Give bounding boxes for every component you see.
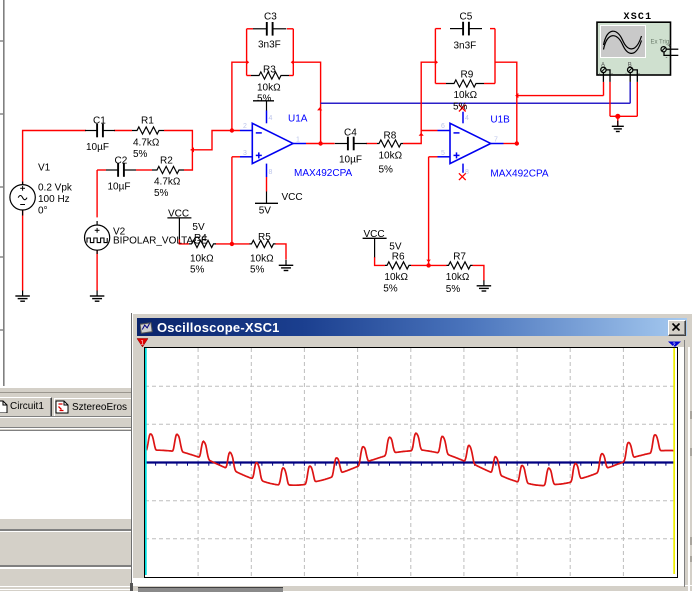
svg-text:C5: C5: [460, 12, 473, 23]
ground R7: [483, 280, 485, 286]
title text: [157, 320, 280, 335]
svg-text:8: 8: [269, 169, 273, 176]
resistor R3: [251, 72, 289, 79]
node arrow feedback right A: [291, 60, 294, 65]
wire VCC2 to R6: [375, 257, 385, 265]
resistor R5: [250, 240, 276, 247]
svg-text:R5: R5: [258, 232, 271, 243]
svg-text:5%: 5%: [379, 165, 394, 176]
svg-text:3: 3: [243, 150, 247, 157]
wire R5 to ground: [276, 244, 287, 260]
capacitor C5: [450, 28, 463, 30]
svg-text:5%: 5%: [190, 265, 205, 276]
plot grid and waveform: [145, 348, 675, 576]
svg-text:R2: R2: [160, 156, 173, 167]
svg-text:5%: 5%: [133, 149, 148, 160]
svg-text:C2: C2: [115, 156, 128, 167]
svg-text:0.2 Vpk: 0.2 Vpk: [38, 183, 73, 194]
close button: [668, 320, 686, 336]
svg-text:2: 2: [673, 343, 676, 349]
svg-text:+: +: [624, 73, 628, 79]
wire terminal A down: [602, 73, 604, 82]
BIPOLAR_VOLTAGE source V2: [85, 225, 110, 250]
node junction arrow R1/R2: [191, 147, 194, 152]
wire R7 to ground: [473, 265, 484, 280]
svg-text:5V: 5V: [259, 206, 272, 217]
spreadsheet white panel: [0, 430, 131, 519]
node arrow blue tap: [317, 107, 322, 110]
svg-text:10kΩ: 10kΩ: [379, 151, 403, 162]
wire blue to scope B: [321, 102, 631, 104]
svg-text:R9: R9: [461, 70, 474, 81]
svg-text:4.7kΩ: 4.7kΩ: [154, 177, 181, 188]
svg-text:10kΩ: 10kΩ: [250, 254, 274, 265]
svg-text:3n3F: 3n3F: [258, 40, 281, 51]
waveform channel A: [147, 433, 675, 485]
resistor R4: [189, 240, 216, 247]
svg-text:10kΩ: 10kΩ: [257, 83, 281, 94]
svg-text:100 Hz: 100 Hz: [38, 194, 70, 205]
svg-text:MAX492CPA: MAX492CPA: [490, 169, 549, 180]
wire feedback box right: [292, 29, 294, 76]
wire Ex Trig +: [666, 48, 678, 50]
resistor R6: [385, 262, 411, 269]
svg-text:10kΩ: 10kΩ: [384, 272, 408, 283]
wire scope B+ drop: [629, 82, 631, 103]
wire terminal B-: [632, 70, 637, 82]
ground scope: [617, 121, 619, 127]
svg-text:4: 4: [269, 115, 273, 122]
wire U1B in+: [429, 156, 438, 158]
capacitor C1: [85, 130, 97, 132]
svg-text:5V: 5V: [389, 242, 402, 253]
title bar icon: [140, 321, 153, 334]
wire to scope A+: [517, 95, 604, 97]
power VCC U1A: [255, 202, 278, 204]
tab strip bottom border: [0, 416, 131, 417]
plot area: [144, 347, 678, 578]
svg-text:-: -: [638, 72, 640, 78]
wire C3 corners: [247, 28, 253, 30]
svg-text:5%: 5%: [453, 102, 468, 113]
svg-text:R4: R4: [194, 233, 207, 244]
svg-text:C1: C1: [93, 116, 106, 127]
wire V1 to ground: [22, 210, 24, 290]
wire C5 corners: [435, 28, 441, 30]
svg-text:V1: V1: [38, 163, 51, 174]
svg-text:10µF: 10µF: [108, 182, 131, 193]
svg-text:C3: C3: [264, 12, 277, 23]
wire Ex Trig -: [664, 52, 678, 56]
svg-text:R7: R7: [453, 252, 466, 263]
svg-text:C4: C4: [344, 128, 357, 139]
node arrow scope tap B: [515, 93, 518, 98]
wire feedback box left: [246, 29, 248, 76]
AC source V1: [10, 185, 35, 210]
power pin symbol U1A top: [253, 100, 274, 102]
wire scope A- drop: [609, 82, 611, 116]
svg-text:4.7kΩ: 4.7kΩ: [133, 138, 160, 149]
svg-text:-: -: [611, 72, 613, 78]
svg-text:10µF: 10µF: [339, 155, 362, 166]
wire feedback box left B: [434, 29, 436, 84]
svg-text:8: 8: [465, 169, 469, 176]
wire scope A+ drop: [603, 82, 605, 96]
wire terminal A-: [606, 70, 611, 82]
gridlines: [197, 348, 199, 577]
node junction dot R4/R5: [230, 242, 234, 246]
wire U1A feedback left: [232, 62, 247, 130]
wire U1A out: [306, 143, 335, 145]
svg-text:R1: R1: [141, 116, 154, 127]
svg-text:4: 4: [465, 115, 469, 122]
op-amp U1A: [252, 123, 293, 163]
svg-text:VCC: VCC: [282, 192, 303, 203]
svg-text:5%: 5%: [383, 284, 398, 295]
svg-text:5%: 5%: [257, 94, 272, 105]
wire U1B in- stub: [421, 130, 437, 132]
wire scope gnd stem: [617, 116, 619, 126]
svg-text:R3: R3: [263, 64, 276, 75]
groove below tabs: [0, 427, 131, 428]
svg-text:U1A: U1A: [288, 114, 308, 125]
white strip right of plot: [678, 347, 684, 585]
svg-text:5V: 5V: [192, 222, 205, 233]
svg-text:3n3F: 3n3F: [454, 41, 477, 52]
wire U1A in+ to bias: [231, 157, 233, 244]
wire R6 to R7: [411, 264, 447, 266]
wire C4 to R8: [366, 143, 377, 145]
svg-text:5%: 5%: [154, 188, 169, 199]
wire terminal B down: [629, 73, 631, 82]
wire U1B in+ to bias: [428, 157, 430, 266]
svg-text:1: 1: [296, 137, 300, 144]
wire U1A pin8 to VCC: [266, 177, 268, 192]
wire R4 to R5: [216, 243, 250, 245]
bottom-left application panels: [0, 388, 131, 591]
svg-text:2: 2: [243, 123, 247, 130]
node junction dot U1A in-: [230, 128, 234, 132]
svg-text:XSC1: XSC1: [624, 12, 653, 23]
node junction dot R6/R7: [426, 263, 430, 267]
oscilloscope icon XSC1: [597, 22, 671, 75]
white strip below plot: [133, 578, 684, 585]
svg-text:5: 5: [441, 150, 445, 157]
sheet border: [3, 0, 5, 386]
cursor triangle 1 (red): [136, 338, 150, 348]
svg-text:10kΩ: 10kΩ: [190, 254, 214, 265]
svg-text:0°: 0°: [38, 206, 48, 217]
svg-text:MAX492CPA: MAX492CPA: [294, 168, 353, 179]
wire R1 to junction: [164, 131, 192, 171]
wire U1A in+: [232, 156, 240, 158]
resistor R8: [377, 140, 403, 147]
tab bar top edge: [0, 392, 131, 393]
resistor R1: [132, 127, 164, 134]
svg-text:10µF: 10µF: [86, 142, 109, 153]
node arrow feedback left A: [246, 60, 249, 65]
svg-text:U1B: U1B: [490, 115, 510, 126]
no-connect X U1B pin8: [459, 173, 466, 180]
svg-text:VCC: VCC: [364, 229, 385, 240]
wire feedback to output A: [293, 62, 320, 143]
svg-text:Ex Trig: Ex Trig: [651, 40, 670, 46]
svg-text:5%: 5%: [250, 265, 265, 276]
node junction dot scope gnd: [615, 114, 620, 119]
node junction dot U1A out: [318, 141, 322, 145]
wire V2 to ground: [96, 250, 98, 290]
svg-text:10kΩ: 10kΩ: [454, 90, 478, 101]
cursor line T2: [673, 348, 675, 574]
node arrow U1B in-: [419, 133, 424, 136]
node junction dot U1B out: [515, 141, 519, 145]
wire R8 to U1B in-: [403, 62, 435, 143]
ground V1: [22, 291, 24, 297]
svg-text:R6: R6: [392, 252, 405, 263]
tab Circuit1 (active): [0, 397, 52, 417]
svg-text:VCC: VCC: [168, 209, 189, 220]
scope window right inner edge: [684, 340, 685, 587]
wire junction to U1A in-: [191, 131, 240, 150]
wire feedback box right B: [494, 29, 496, 84]
resistor R9: [446, 80, 484, 87]
wire V2 to C2: [96, 170, 98, 217]
wire C1 to R1: [114, 130, 132, 132]
terminal B: [628, 67, 633, 72]
wire scope B- drop: [636, 82, 638, 116]
svg-text:R8: R8: [384, 131, 397, 142]
no-connect X U1B pin4: [459, 105, 466, 112]
wire V1 to C1: [23, 131, 86, 185]
capacitor C4: [335, 143, 348, 145]
svg-text:+: +: [598, 73, 602, 79]
oscilloscope window XSC1: [131, 313, 692, 591]
power VCC bias1: [167, 217, 191, 219]
wire feedback to output B: [495, 62, 517, 143]
op-amp U1B: [450, 123, 491, 163]
node arrow feedback left B: [435, 60, 438, 65]
terminal Ex Trig: [661, 47, 666, 52]
svg-text:6: 6: [441, 123, 445, 130]
wire VCC1 to R4: [179, 239, 189, 244]
oscilloscope window title bar: [137, 318, 687, 336]
capacitor C3: [253, 28, 267, 30]
wire C2 to R2: [136, 169, 152, 171]
resistor R7: [447, 262, 473, 269]
cursor triangle 2 (blue): [667, 341, 682, 348]
tab SztereoEros: [54, 398, 132, 416]
capacitor C2: [106, 169, 118, 171]
wire scope gnd bus: [610, 115, 637, 117]
power VCC bias2: [363, 237, 387, 239]
ground V2: [96, 291, 98, 297]
svg-text:5%: 5%: [446, 284, 461, 295]
lower grooves: [0, 529, 131, 531]
bottom scrollbar sliver: [133, 585, 692, 587]
ground R5: [285, 260, 287, 266]
svg-text:7: 7: [494, 137, 498, 144]
wire U1B out: [504, 143, 517, 145]
terminal A: [601, 67, 606, 72]
resistor R2: [152, 166, 184, 173]
axis: [145, 461, 677, 463]
cursor line T1: [145, 348, 147, 575]
svg-text:10kΩ: 10kΩ: [446, 272, 470, 283]
sheet border ticks: [0, 40, 4, 42]
